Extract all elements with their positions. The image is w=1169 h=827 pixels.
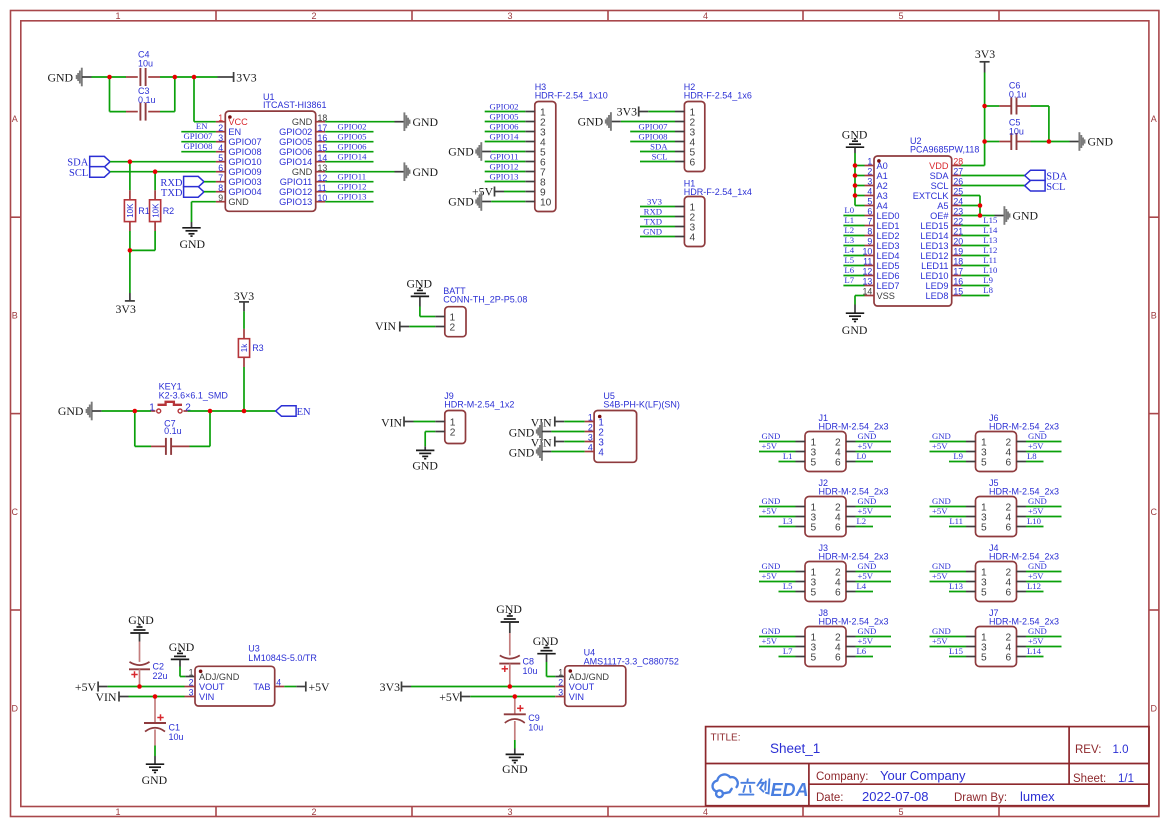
svg-text:1: 1	[558, 668, 563, 678]
net label EN	[181, 121, 216, 132]
svg-text:L8: L8	[983, 285, 993, 295]
svg-text:GPIO07: GPIO07	[228, 137, 261, 147]
svg-text:GPIO14: GPIO14	[338, 152, 368, 162]
svg-text:L4: L4	[857, 581, 867, 591]
net label L0 (J1 pin6)	[856, 451, 874, 462]
svg-text:A2: A2	[877, 181, 888, 191]
power port 3V3 (U2)	[975, 47, 995, 73]
wire C6 to C5	[1048, 106, 1050, 142]
frame column labels	[115, 11, 903, 817]
wire C3 parallel loop	[110, 77, 175, 112]
svg-text:2: 2	[588, 423, 593, 433]
U4 reference label	[584, 648, 679, 667]
J2 pin numbers	[811, 503, 842, 534]
net label L14 (J7 pin6)	[1026, 646, 1044, 657]
svg-text:LED11: LED11	[921, 261, 948, 271]
ground (BATT)	[407, 276, 433, 296]
svg-text:GND: GND	[509, 445, 535, 459]
svg-text:10u: 10u	[523, 666, 538, 676]
svg-text:HDR-M-2.54_2x3: HDR-M-2.54_2x3	[819, 486, 889, 496]
net label GND (J7 pin2)	[1026, 626, 1062, 637]
svg-text:Company:: Company:	[816, 771, 868, 783]
svg-text:3: 3	[507, 807, 512, 817]
ground (C9)	[502, 754, 528, 776]
net label +5V (J7 pin3)	[930, 636, 967, 647]
svg-text:L15: L15	[983, 215, 997, 225]
net label 3V3 (H1)	[640, 196, 675, 206]
svg-text:L3: L3	[783, 516, 793, 526]
J3 reference label	[819, 543, 889, 561]
svg-text:HDR-M-2.54_2x3: HDR-M-2.54_2x3	[989, 616, 1059, 626]
svg-text:8: 8	[218, 183, 223, 193]
J2 reference label	[819, 478, 889, 496]
svg-text:L11: L11	[949, 516, 963, 526]
svg-text:+5V: +5V	[932, 506, 948, 516]
resistor R2	[150, 190, 161, 231]
svg-text:5: 5	[867, 197, 872, 207]
svg-text:VIN: VIN	[96, 690, 117, 704]
svg-text:3: 3	[507, 11, 512, 21]
ground (U2 A-pins)	[842, 127, 868, 147]
U3 pin numbers	[189, 668, 282, 698]
wire U2 address rail	[855, 148, 865, 206]
svg-text:GND: GND	[1028, 626, 1047, 636]
net label L5	[843, 255, 864, 266]
connector J2	[796, 497, 856, 537]
connector J9	[435, 411, 465, 444]
net flag EN (KEY1)	[276, 406, 311, 418]
net label +5V (J8 pin3)	[759, 636, 796, 647]
svg-text:A5: A5	[937, 201, 948, 211]
svg-text:+5V: +5V	[439, 690, 461, 704]
svg-text:5: 5	[218, 153, 223, 163]
svg-text:HDR-F-2.54_1x10: HDR-F-2.54_1x10	[535, 90, 608, 100]
net flag SDA	[67, 156, 110, 168]
J7 reference label	[989, 608, 1059, 626]
net label +5V (J1 pin3)	[759, 441, 796, 452]
svg-text:GND: GND	[932, 496, 951, 506]
svg-text:+5V: +5V	[762, 636, 778, 646]
title block TITLE field	[711, 733, 821, 757]
svg-text:SDA: SDA	[650, 141, 668, 151]
power port +5V (H3 pin9)	[472, 184, 525, 198]
svg-text:2: 2	[185, 403, 191, 414]
net label +5V (J2 pin3)	[759, 506, 796, 517]
svg-text:3V3: 3V3	[647, 196, 662, 206]
connector J1	[796, 432, 856, 472]
svg-text:GPIO14: GPIO14	[490, 131, 520, 141]
svg-text:D: D	[1151, 704, 1158, 714]
svg-text:6: 6	[835, 458, 841, 469]
connector J3	[796, 562, 856, 602]
svg-text:1: 1	[189, 668, 194, 678]
svg-text:GPIO12: GPIO12	[279, 187, 312, 197]
svg-text:VIN: VIN	[381, 415, 402, 429]
title block Date field	[816, 789, 1055, 804]
svg-text:TXD: TXD	[644, 216, 662, 226]
svg-text:A0: A0	[877, 161, 888, 171]
net label +5V (J7 pin4)	[1026, 636, 1062, 647]
svg-text:1: 1	[149, 403, 155, 414]
svg-text:GPIO12: GPIO12	[338, 182, 367, 192]
wire SDA to R1	[129, 162, 131, 191]
net label L10	[961, 265, 998, 276]
svg-text:VIN: VIN	[375, 319, 396, 333]
power port VIN (U5)	[531, 435, 585, 449]
svg-text:Sheet_1: Sheet_1	[770, 741, 820, 756]
svg-text:L14: L14	[983, 225, 998, 235]
wire C7 parallel loop	[135, 411, 210, 446]
svg-text:L9: L9	[983, 275, 993, 285]
svg-text:GPIO11: GPIO11	[338, 172, 367, 182]
svg-text:4: 4	[867, 187, 872, 197]
svg-text:GND: GND	[502, 762, 528, 776]
svg-text:HDR-F-2.54_1x6: HDR-F-2.54_1x6	[684, 90, 752, 100]
net label GPIO12	[325, 182, 373, 192]
svg-text:GPIO02: GPIO02	[490, 101, 519, 111]
svg-text:5: 5	[981, 653, 987, 664]
svg-text:VIN: VIN	[569, 692, 584, 702]
C5 value label	[1009, 118, 1024, 137]
BATT reference label	[443, 286, 527, 304]
svg-text:GND: GND	[858, 561, 877, 571]
svg-text:GND: GND	[448, 144, 474, 158]
svg-text:LED2: LED2	[877, 231, 900, 241]
BATT pin numbers	[450, 313, 456, 334]
svg-text:5: 5	[811, 653, 817, 664]
net flag TXD	[161, 187, 204, 200]
junction	[107, 75, 112, 80]
svg-text:LED7: LED7	[877, 281, 900, 291]
svg-text:5: 5	[981, 588, 987, 599]
svg-text:6: 6	[1006, 458, 1012, 469]
svg-text:1: 1	[218, 113, 223, 123]
net label L6 (J8 pin6)	[856, 646, 874, 657]
net label GND (J4 pin2)	[1026, 561, 1062, 572]
svg-text:GND: GND	[842, 323, 868, 337]
svg-text:HDR-M-2.54_2x3: HDR-M-2.54_2x3	[819, 421, 889, 431]
svg-text:1/1: 1/1	[1118, 773, 1134, 785]
svg-text:L10: L10	[983, 265, 998, 275]
junction	[137, 684, 142, 689]
svg-text:GND: GND	[932, 626, 951, 636]
svg-text:C: C	[1151, 507, 1158, 517]
svg-text:3: 3	[588, 433, 593, 443]
svg-text:HDR-F-2.54_1x4: HDR-F-2.54_1x4	[684, 187, 752, 197]
svg-text:5: 5	[981, 458, 987, 469]
junction	[978, 203, 983, 208]
wire U2 VSS to ground	[855, 296, 865, 313]
net label GPIO05 (H3)	[485, 111, 526, 121]
svg-text:GND: GND	[142, 773, 168, 787]
net label L3	[843, 235, 864, 246]
U3 reference label	[248, 644, 317, 663]
logo text LiChuang EDA	[739, 779, 769, 794]
net label GPIO07	[181, 131, 216, 142]
svg-text:GPIO07: GPIO07	[184, 131, 214, 141]
svg-text:R1: R1	[138, 206, 150, 216]
title block Sheet field	[1073, 773, 1134, 785]
U2 pin names	[877, 161, 950, 301]
ground (C8)	[496, 602, 522, 622]
svg-text:HDR-M-2.54_2x3: HDR-M-2.54_2x3	[819, 616, 889, 626]
net flag SCL	[69, 167, 110, 180]
svg-text:GPIO02: GPIO02	[338, 122, 367, 132]
H3 pin numbers	[540, 108, 552, 209]
wire U1 pin18 to ground	[325, 121, 404, 123]
svg-text:ITCAST-HI3861: ITCAST-HI3861	[263, 100, 327, 110]
resistor R1	[124, 190, 135, 231]
svg-text:6: 6	[690, 158, 696, 169]
junction	[242, 409, 247, 414]
svg-text:5: 5	[811, 523, 817, 534]
svg-text:Your Company: Your Company	[880, 768, 966, 783]
capacitor C5	[985, 133, 1049, 150]
svg-text:10u: 10u	[528, 723, 543, 733]
svg-text:L15: L15	[949, 646, 963, 656]
net label L11 (J5 pin5)	[949, 516, 966, 527]
svg-text:4: 4	[276, 678, 281, 688]
svg-text:D: D	[11, 704, 18, 714]
J3 pin numbers	[811, 568, 842, 599]
svg-text:A: A	[12, 114, 18, 124]
svg-text:3V3: 3V3	[236, 70, 256, 84]
svg-text:GPIO05: GPIO05	[490, 111, 519, 121]
svg-text:B: B	[1151, 311, 1157, 321]
svg-text:8: 8	[867, 227, 872, 237]
svg-text:+5V: +5V	[1028, 441, 1044, 451]
ground (U1 pin9)	[180, 228, 206, 251]
ground flag (U1 pin18)	[404, 112, 438, 131]
svg-text:L2: L2	[844, 225, 854, 235]
wire 3V3 to VDD	[961, 73, 984, 166]
svg-text:SCL: SCL	[1046, 182, 1065, 193]
connector H1	[675, 197, 705, 247]
svg-text:GND: GND	[858, 431, 877, 441]
svg-text:6: 6	[1006, 653, 1012, 664]
svg-text:3V3: 3V3	[234, 289, 254, 303]
ground flag (U1 pin13)	[404, 162, 438, 181]
net label L2	[843, 225, 864, 236]
svg-text:+5V: +5V	[762, 506, 778, 516]
svg-text:CONN-TH_2P-P5.08: CONN-TH_2P-P5.08	[443, 294, 527, 304]
svg-text:1: 1	[588, 413, 593, 423]
power port VIN (U5)	[531, 415, 585, 429]
svg-text:lumex: lumex	[1020, 789, 1055, 804]
power port +5V (TAB)	[284, 680, 330, 694]
net label SCL (H2)	[640, 151, 675, 161]
IC U2	[865, 156, 962, 306]
svg-text:Sheet:: Sheet:	[1073, 773, 1106, 785]
svg-text:+5V: +5V	[472, 184, 494, 198]
svg-text:SCL: SCL	[652, 151, 668, 161]
svg-text:GPIO05: GPIO05	[338, 132, 367, 142]
power port 3V3	[218, 70, 257, 84]
svg-text:L0: L0	[857, 451, 867, 461]
ground (C1)	[142, 764, 168, 787]
junction	[153, 694, 158, 699]
J5 pin numbers	[981, 503, 1012, 534]
J4 pin numbers	[981, 568, 1012, 599]
switch KEY1	[151, 402, 187, 413]
net label L1 (J1 pin5)	[779, 451, 796, 462]
svg-text:L1: L1	[844, 215, 854, 225]
svg-text:+5V: +5V	[858, 571, 874, 581]
svg-text:3: 3	[867, 177, 872, 187]
svg-text:5: 5	[898, 807, 903, 817]
J9 reference label	[444, 391, 514, 410]
net label L14	[961, 225, 998, 236]
net label L8	[961, 285, 993, 296]
svg-text:+5V: +5V	[1028, 571, 1044, 581]
svg-text:LED5: LED5	[877, 261, 900, 271]
svg-text:L4: L4	[844, 245, 854, 255]
U3 pin names	[199, 672, 271, 702]
svg-text:R2: R2	[163, 206, 175, 216]
svg-text:2: 2	[450, 323, 456, 334]
svg-text:GPIO08: GPIO08	[184, 141, 214, 151]
net label L10 (J5 pin6)	[1026, 516, 1044, 527]
C2 value label	[153, 662, 168, 682]
svg-text:TITLE:: TITLE:	[711, 733, 741, 744]
svg-text:GND: GND	[932, 431, 951, 441]
svg-text:6: 6	[835, 588, 841, 599]
svg-text:+5V: +5V	[932, 636, 948, 646]
svg-text:LED13: LED13	[920, 241, 948, 251]
svg-text:PCA9685PW,118: PCA9685PW,118	[910, 144, 979, 154]
title block	[706, 727, 1149, 806]
svg-text:L6: L6	[844, 265, 854, 275]
svg-text:2: 2	[867, 167, 872, 177]
svg-text:4: 4	[703, 807, 708, 817]
net label +5V (J2 pin4)	[856, 506, 892, 517]
wire J9 pin2 to ground	[425, 432, 435, 451]
J8 reference label	[819, 608, 889, 626]
svg-text:+5V: +5V	[762, 571, 778, 581]
ground flag (OE#)	[1004, 206, 1038, 225]
svg-text:L5: L5	[844, 255, 854, 265]
svg-text:K2-3.6×6.1_SMD: K2-3.6×6.1_SMD	[159, 390, 229, 400]
svg-text:+5V: +5V	[932, 571, 948, 581]
net label GPIO12 (H3)	[485, 161, 526, 171]
U1 pin names	[228, 117, 312, 207]
svg-text:3V3: 3V3	[380, 680, 400, 694]
svg-text:GND: GND	[578, 114, 604, 128]
svg-text:+5V: +5V	[932, 441, 948, 451]
svg-text:6: 6	[867, 207, 872, 217]
junction	[133, 409, 138, 414]
net label GPIO14	[325, 152, 373, 162]
svg-text:+5V: +5V	[1028, 506, 1044, 516]
C7 value label	[164, 418, 182, 436]
IC U3	[185, 666, 285, 706]
svg-text:GND: GND	[932, 561, 951, 571]
capacitor C6	[985, 98, 1049, 115]
title block Company field	[816, 768, 966, 783]
power port VIN (U3 in)	[96, 690, 185, 704]
svg-text:2: 2	[450, 428, 456, 439]
net label GND (J1 pin1)	[759, 431, 796, 442]
net label GND (J3 pin1)	[759, 561, 796, 572]
svg-text:L2: L2	[857, 516, 867, 526]
svg-text:GPIO03: GPIO03	[228, 177, 261, 187]
net label L6	[843, 265, 864, 276]
net label +5V (J3 pin3)	[759, 571, 796, 582]
svg-text:A1: A1	[877, 171, 888, 181]
svg-text:GPIO07: GPIO07	[639, 121, 669, 131]
U5 pin numbers	[588, 413, 593, 453]
svg-text:6: 6	[835, 523, 841, 534]
svg-text:GND: GND	[128, 613, 154, 627]
svg-text:LM1084S-5.0/TR: LM1084S-5.0/TR	[248, 653, 317, 663]
svg-text:GND: GND	[1028, 431, 1047, 441]
svg-text:RXD: RXD	[644, 206, 662, 216]
KEY1 reference label	[159, 381, 229, 400]
svg-text:REV:: REV:	[1075, 744, 1101, 756]
capacitor C9	[504, 697, 526, 754]
net label GPIO13 (H3)	[485, 171, 526, 181]
svg-text:GND: GND	[509, 425, 535, 439]
svg-text:GPIO06: GPIO06	[490, 121, 520, 131]
net label +5V (J6 pin4)	[1026, 441, 1062, 452]
net label GPIO11 (H3)	[485, 151, 526, 161]
svg-text:GND: GND	[858, 626, 877, 636]
ground flag (H2 pin2)	[578, 112, 675, 131]
svg-text:GND: GND	[48, 70, 74, 84]
ground flag (C4 rail)	[48, 68, 82, 87]
net label +5V (J4 pin4)	[1026, 571, 1062, 582]
svg-text:HDR-M-2.54_2x3: HDR-M-2.54_2x3	[989, 486, 1059, 496]
svg-text:LED3: LED3	[877, 241, 900, 251]
net label L0	[843, 205, 864, 216]
junction	[853, 193, 858, 198]
power port 3V3 (U4 out)	[380, 680, 556, 694]
ground flag (H3 pin5)	[448, 142, 525, 161]
net label +5V (J3 pin4)	[856, 571, 892, 582]
svg-text:VDD: VDD	[929, 161, 949, 171]
svg-text:4: 4	[598, 448, 604, 459]
svg-text:GND: GND	[1028, 496, 1047, 506]
net label GPIO06 (H3)	[485, 121, 526, 131]
net label GND (J2 pin1)	[759, 496, 796, 507]
net label +5V (J6 pin3)	[930, 441, 967, 452]
ground (J9)	[412, 450, 438, 472]
junction	[853, 173, 858, 178]
IC U1	[216, 111, 325, 211]
svg-text:GND: GND	[58, 404, 84, 418]
wire U3 pin1 to ground	[180, 660, 195, 677]
svg-text:LED10: LED10	[920, 271, 948, 281]
svg-text:5: 5	[898, 11, 903, 21]
svg-text:11: 11	[863, 257, 872, 267]
wire RXD	[204, 181, 216, 183]
svg-text:6: 6	[218, 163, 223, 173]
junction	[153, 169, 158, 174]
svg-text:L7: L7	[844, 275, 854, 285]
svg-text:GND: GND	[412, 459, 438, 473]
svg-text:7: 7	[867, 217, 872, 227]
svg-text:+5V: +5V	[309, 680, 331, 694]
svg-text:L14: L14	[1027, 646, 1042, 656]
J6 pin numbers	[981, 438, 1012, 469]
svg-text:GPIO09: GPIO09	[228, 167, 261, 177]
power port 3V3 (R3)	[234, 289, 254, 329]
svg-text:HDR-M-2.54_2x3: HDR-M-2.54_2x3	[989, 551, 1059, 561]
svg-text:L10: L10	[1027, 516, 1042, 526]
svg-text:GPIO04: GPIO04	[228, 187, 261, 197]
svg-text:GPIO02: GPIO02	[279, 127, 312, 137]
wire SDA	[110, 161, 216, 163]
